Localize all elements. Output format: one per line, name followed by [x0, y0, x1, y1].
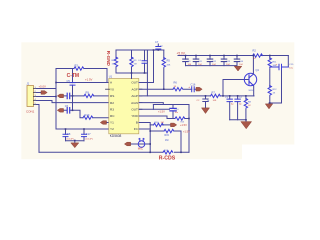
- wire pin3R long net: [139, 95, 254, 97]
- svg-text:R3: R3: [75, 63, 79, 67]
- svg-text:RC: RC: [110, 114, 115, 118]
- svg-text:R-GND: R-GND: [106, 51, 111, 67]
- wire pin5R jog up: [152, 105, 154, 110]
- wire IC pin7 net: [107, 122, 109, 124]
- wire input cap branch vertical: [72, 69, 74, 110]
- svg-text:R3: R3: [110, 108, 114, 112]
- capacitor C8 leads: [65, 129, 67, 141]
- svg-text:+1.5V: +1.5V: [180, 123, 187, 127]
- port arrow left at pin5 chain: [57, 109, 63, 113]
- capacitor C3 plates: [227, 99, 232, 102]
- svg-text:Y1: Y1: [110, 121, 114, 125]
- IC U1 left pin2 stub: [106, 88, 110, 90]
- microphone MIC prongs: [139, 138, 144, 141]
- wire pin6R jog to lower loop wire: [139, 116, 167, 119]
- capacitor C3 leads: [229, 96, 231, 120]
- svg-text:C16: C16: [191, 82, 196, 86]
- divider resistor R11: [269, 56, 271, 87]
- wire pin1R vertical: [139, 50, 154, 83]
- svg-text:C-TM: C-TM: [67, 73, 80, 79]
- svg-text:C17: C17: [86, 132, 91, 136]
- svg-text:AGN: AGN: [131, 101, 138, 105]
- svg-text:(0.1uF): (0.1uF): [67, 139, 74, 141]
- wire mic net: [131, 143, 150, 145]
- svg-text:R2: R2: [110, 101, 114, 105]
- svg-text:Q1: Q1: [256, 68, 260, 72]
- svg-text:Y2: Y2: [110, 127, 114, 131]
- wire box right vertical down to pin3R net: [146, 50, 148, 96]
- wire pin1 to +5V node: [37, 88, 57, 90]
- ground at decoupling bank: [234, 66, 242, 71]
- port arrow right at pin7R chain: [171, 123, 177, 127]
- wire divider bottom to ground corner: [269, 102, 282, 105]
- junction dots: [55, 82, 57, 84]
- capacitor C6 plates: [67, 93, 70, 98]
- svg-text:AGP: AGP: [131, 94, 138, 98]
- wire loop top: [153, 104, 189, 106]
- wire Q1 emitter down to pin3R net: [253, 86, 255, 96]
- wire pin4R jog: [139, 103, 163, 105]
- svg-text:YDD: YDD: [131, 114, 138, 118]
- wire IC pin3 net with resistor: [64, 95, 109, 97]
- wire cap commons to ground: [66, 141, 85, 143]
- wire pin2 stub to port arrow: [37, 92, 42, 94]
- output capacitor C15: [270, 64, 289, 70]
- connector J1 body: [27, 86, 34, 107]
- svg-text:9014: 9014: [249, 90, 255, 92]
- divider resistor R12: [269, 86, 271, 103]
- svg-text:1M: 1M: [134, 64, 137, 66]
- svg-text:+1.5V: +1.5V: [183, 129, 190, 133]
- capacitor C2 on pin3R net with ground: [203, 96, 208, 108]
- resistor R9: [84, 94, 94, 97]
- ground at divider: [265, 104, 272, 109]
- transistor Q1 body: [244, 73, 256, 85]
- connector J1 pin stubs: [34, 89, 37, 105]
- wire loop lower with resistor: [167, 118, 189, 120]
- wire C-TM net horizontal: [56, 68, 107, 70]
- bottom bus wire with resistor R14: [39, 151, 189, 153]
- resistor R10: [83, 116, 93, 119]
- svg-text:C7: C7: [155, 40, 159, 44]
- wire pin7R jog down: [139, 123, 150, 153]
- svg-text:KD5608: KD5608: [110, 134, 122, 138]
- svg-text:C6: C6: [65, 104, 69, 108]
- wire decoupling common to ground: [186, 65, 238, 68]
- capacitor C16 plates: [192, 87, 195, 92]
- port arrow right at connector pin2: [41, 91, 47, 95]
- capacitor C4b leads: [237, 96, 239, 120]
- microphone MIC body: [138, 141, 145, 148]
- svg-text:CON1: CON1: [26, 110, 35, 114]
- wire pin4 jog to IC pin4: [37, 101, 110, 103]
- svg-text:OUT: OUT: [131, 108, 138, 112]
- svg-text:+1.5V: +1.5V: [158, 110, 165, 114]
- svg-text:U1: U1: [109, 75, 113, 79]
- svg-text:+: +: [188, 85, 190, 89]
- svg-text:+5.0V: +5.0V: [177, 51, 186, 55]
- wire output right vertical: [282, 56, 289, 104]
- capacitor C7 above wire: [157, 44, 159, 50]
- wire Q1 collector up to rail: [252, 56, 254, 75]
- R-GND box top wire: [116, 49, 164, 51]
- svg-text:R15: R15: [165, 134, 170, 137]
- wire box bottom to IC top: [131, 73, 133, 79]
- svg-text:+5.0V: +5.0V: [39, 84, 47, 88]
- svg-text:B: B: [136, 121, 138, 125]
- ground at C2: [202, 108, 210, 114]
- wire IC pin6 net: [67, 108, 70, 113]
- svg-text:Y0: Y0: [110, 87, 114, 91]
- IC U1 right pin stubs: [139, 83, 142, 130]
- svg-text:45K: 45K: [167, 65, 171, 67]
- wire pin2R net: [139, 88, 196, 90]
- ground at left caps: [71, 143, 79, 148]
- svg-text:(0.1uF): (0.1uF): [86, 139, 93, 141]
- svg-text:OUT: OUT: [131, 81, 138, 85]
- svg-text:R-CDS: R-CDS: [159, 155, 176, 161]
- wire IC pin1 net: [56, 82, 110, 84]
- decoupling capacitor C13: [223, 56, 225, 66]
- port arrow left at mic: [124, 142, 130, 146]
- svg-text:R10: R10: [85, 113, 90, 117]
- svg-text:+1.5V: +1.5V: [85, 78, 93, 82]
- wire C3 C4b R8b common: [230, 120, 246, 122]
- capacitor C8 plates: [63, 134, 68, 136]
- transistor Q1 base wire: [223, 80, 249, 96]
- wire R-CDS loop right vertical: [180, 131, 182, 152]
- capacitor C17 plates: [82, 134, 87, 136]
- sheet background: [21, 42, 294, 159]
- wire pin5R into trimmer cap: [139, 108, 170, 110]
- resistor R8b vertical on pin3R net: [245, 96, 247, 120]
- wire IC pin5 net with resistor: [64, 110, 109, 117]
- wire loop right vertical down to bus: [188, 105, 190, 153]
- capacitor C5 plates: [70, 83, 75, 86]
- svg-text:C8: C8: [67, 132, 71, 136]
- port arrow left at IC pin7: [100, 121, 106, 125]
- resistor R3 (C-TM): [74, 67, 84, 70]
- wire pin8R stub to vertical: [139, 128, 150, 130]
- R-GND box left resistor R8: [115, 50, 117, 73]
- port arrow left at pin3 chain: [57, 94, 63, 98]
- svg-text:10K: 10K: [213, 100, 217, 102]
- resistor R6: [173, 88, 183, 91]
- svg-text:+: +: [276, 63, 278, 67]
- wire IC pin8 net with decoupling caps: [56, 128, 110, 130]
- svg-text:R5: R5: [167, 59, 171, 63]
- wire R-CDS loop top with resistor R15: [150, 130, 181, 132]
- svg-text:MIC: MIC: [138, 147, 143, 151]
- wire pin5 down to bottom bus: [37, 105, 40, 153]
- R-GND box middle resistor R9b: [131, 50, 133, 73]
- R-GND box capacitor C4: [144, 50, 146, 73]
- wire pin7R chain with resistor to port: [150, 124, 170, 126]
- port arrow right at pin2R chain: [196, 87, 202, 91]
- svg-text:R7: R7: [212, 91, 216, 95]
- resistor R5 vertical with stem to pin2R net: [163, 50, 165, 89]
- IC U1 body: [109, 79, 139, 134]
- wire left trunk vertical: [55, 69, 57, 130]
- svg-text:1M: 1M: [161, 122, 164, 124]
- svg-text:1M: 1M: [165, 139, 168, 142]
- svg-text:RS: RS: [110, 94, 114, 98]
- ground big at C3/C4b/R8b: [241, 122, 252, 129]
- svg-text:C5: C5: [67, 79, 71, 83]
- +5V power rail wire: [178, 55, 288, 57]
- svg-text:R9: R9: [86, 91, 90, 95]
- R-GND box bottom wire: [116, 72, 147, 74]
- wire down to IC pin1: [106, 69, 108, 83]
- wire pin3 to trunk: [37, 96, 57, 98]
- svg-text:R6: R6: [174, 81, 178, 85]
- decoupling capacitor C14: [236, 56, 238, 66]
- resistor R2: [253, 54, 263, 57]
- decoupling capacitor C9: [185, 56, 187, 66]
- svg-text:10u: 10u: [175, 112, 178, 114]
- capacitor C17 leads: [83, 129, 85, 141]
- electrolytic cap C10 body: [172, 105, 174, 119]
- white patch bottom-right corner: [242, 145, 300, 224]
- capacitor C4b plates: [235, 99, 240, 102]
- resistor R7 on pin3R net: [211, 94, 221, 97]
- decoupling capacitor C11: [195, 56, 197, 66]
- svg-text:AGF: AGF: [132, 87, 138, 91]
- svg-text:R2: R2: [253, 49, 257, 53]
- decoupling capacitor C12: [209, 56, 211, 66]
